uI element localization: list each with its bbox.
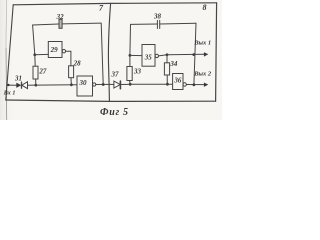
wire: box35 output to out1 arrow	[159, 55, 168, 56]
svg-text:30: 30	[79, 79, 88, 87]
wire: resistor 28 to main wire	[70, 78, 72, 85]
box 30	[77, 76, 93, 96]
node: input node block7	[33, 53, 36, 56]
box 35	[142, 45, 155, 67]
wire: out1 continues	[167, 53, 205, 56]
page edge crease line	[5, 0, 8, 48]
svg-text:34: 34	[169, 60, 178, 68]
wire: node down to resistor 33	[129, 55, 131, 66]
wire: node to box29 input	[35, 53, 49, 55]
resistor 28	[69, 66, 74, 78]
capacitor 32	[59, 19, 62, 28]
wire: block7 feedback right vertical	[101, 23, 103, 84]
resistor 27	[33, 66, 38, 79]
wire: block8 feedback left vertical	[129, 24, 132, 55]
wire: resistor 34 branch down	[166, 55, 168, 63]
wire: diode 37 to resistor33 node	[120, 83, 130, 85]
wire: block7 feedback left vertical	[33, 25, 35, 55]
node: resistor28 junction	[70, 83, 73, 86]
svg-text:27: 27	[38, 67, 47, 75]
output arrowhead out1	[204, 52, 208, 56]
node: input terminal dot	[7, 84, 9, 86]
svg-text:Вх 1: Вх 1	[3, 90, 16, 96]
node: feedback bottom junction	[193, 83, 196, 86]
box 36	[173, 74, 183, 90]
node: resistor27 junction on main wire	[34, 84, 37, 87]
wire: node to box35 input	[130, 54, 142, 56]
wire: resistor 33 to main wire	[129, 81, 132, 85]
node: resistor33 junction	[129, 83, 132, 86]
output bubble of box 36	[183, 83, 186, 86]
wire: block8 feedback right vertical	[194, 23, 196, 85]
resistor 33	[127, 67, 132, 81]
wire: main wire resistor33 node to box36	[130, 83, 172, 85]
node: resistor34 branch	[166, 53, 169, 56]
svg-text:37: 37	[111, 71, 120, 79]
svg-text:Вых 1: Вых 1	[193, 40, 211, 47]
wire: box30 output to divider	[96, 83, 110, 85]
wire: block7 feedback loop top	[33, 24, 59, 25]
capacitor 38 plate right	[159, 20, 161, 28]
capacitor 38 plate left	[156, 20, 158, 28]
svg-text:32: 32	[56, 13, 65, 21]
wire: box29 output to resistor 28	[66, 51, 71, 66]
svg-text:28: 28	[73, 59, 82, 67]
wire: input node down to resistor 27	[34, 55, 36, 66]
diode 37	[114, 81, 120, 88]
wire: box36 output to out2 arrow	[186, 84, 204, 86]
block 7 outer border	[13, 3, 110, 4]
svg-text:8: 8	[203, 3, 207, 12]
svg-text:31: 31	[14, 74, 22, 82]
resistor 34	[164, 63, 169, 75]
block divider (right border of 7 / left border of 8)	[108, 3, 110, 101]
wire: main wire resistor27 node to box30	[36, 84, 77, 86]
wire: resistor 27 to main wire	[35, 79, 37, 85]
svg-text:Фиг 5: Фиг 5	[100, 107, 129, 118]
wire: diode 31 to resistor27 node	[28, 84, 36, 86]
wire: block8 feedback loop top	[131, 23, 158, 25]
wire: resistor 34 to main wire	[166, 75, 168, 84]
svg-text:29: 29	[50, 46, 59, 54]
output bubble of box 29	[62, 50, 65, 53]
svg-text:38: 38	[153, 13, 162, 21]
node: resistor34 junction on main wire	[166, 83, 169, 86]
svg-text:33: 33	[133, 67, 142, 75]
diode 31	[21, 82, 23, 88]
box 29	[48, 42, 62, 58]
output bubble of box 30	[93, 83, 96, 86]
wire: main wire from input border to diode 31	[7, 84, 17, 86]
input arrowhead Vh1	[16, 83, 21, 88]
svg-text:35: 35	[144, 53, 153, 61]
output bubble of box 35	[155, 54, 158, 57]
output arrowhead out2	[204, 83, 208, 87]
node: box35 input node	[129, 54, 132, 57]
block 8 outer border	[111, 2, 217, 5]
svg-text:36: 36	[173, 76, 182, 84]
wire: main wire into block 8	[110, 83, 114, 85]
svg-text:Вых 2: Вых 2	[193, 71, 212, 78]
node: feedback crossing on out1 wire	[192, 53, 195, 56]
node: feedback junction block7	[102, 83, 105, 86]
